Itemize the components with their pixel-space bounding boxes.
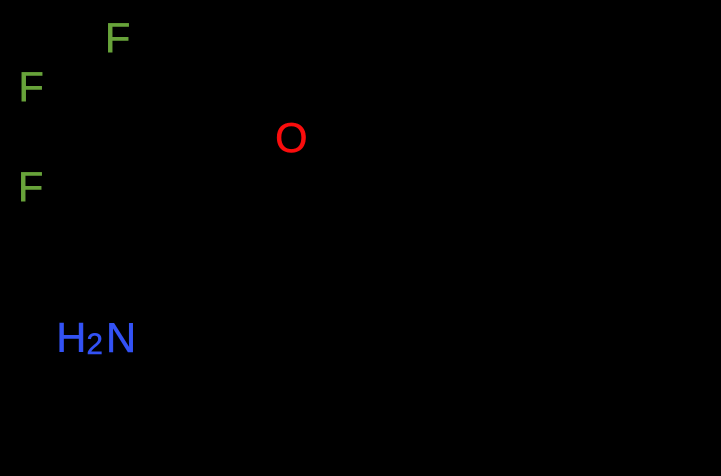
fluorine F1 (top) bbox=[105, 17, 130, 59]
amine N bbox=[106, 317, 136, 359]
amine subscript 2 bbox=[87, 330, 103, 360]
fluorine F2 (middle-left) bbox=[18, 66, 43, 108]
amine H bbox=[56, 317, 86, 359]
oxygen O bbox=[275, 117, 307, 159]
fluorine F3 (lower-left) bbox=[18, 166, 43, 208]
